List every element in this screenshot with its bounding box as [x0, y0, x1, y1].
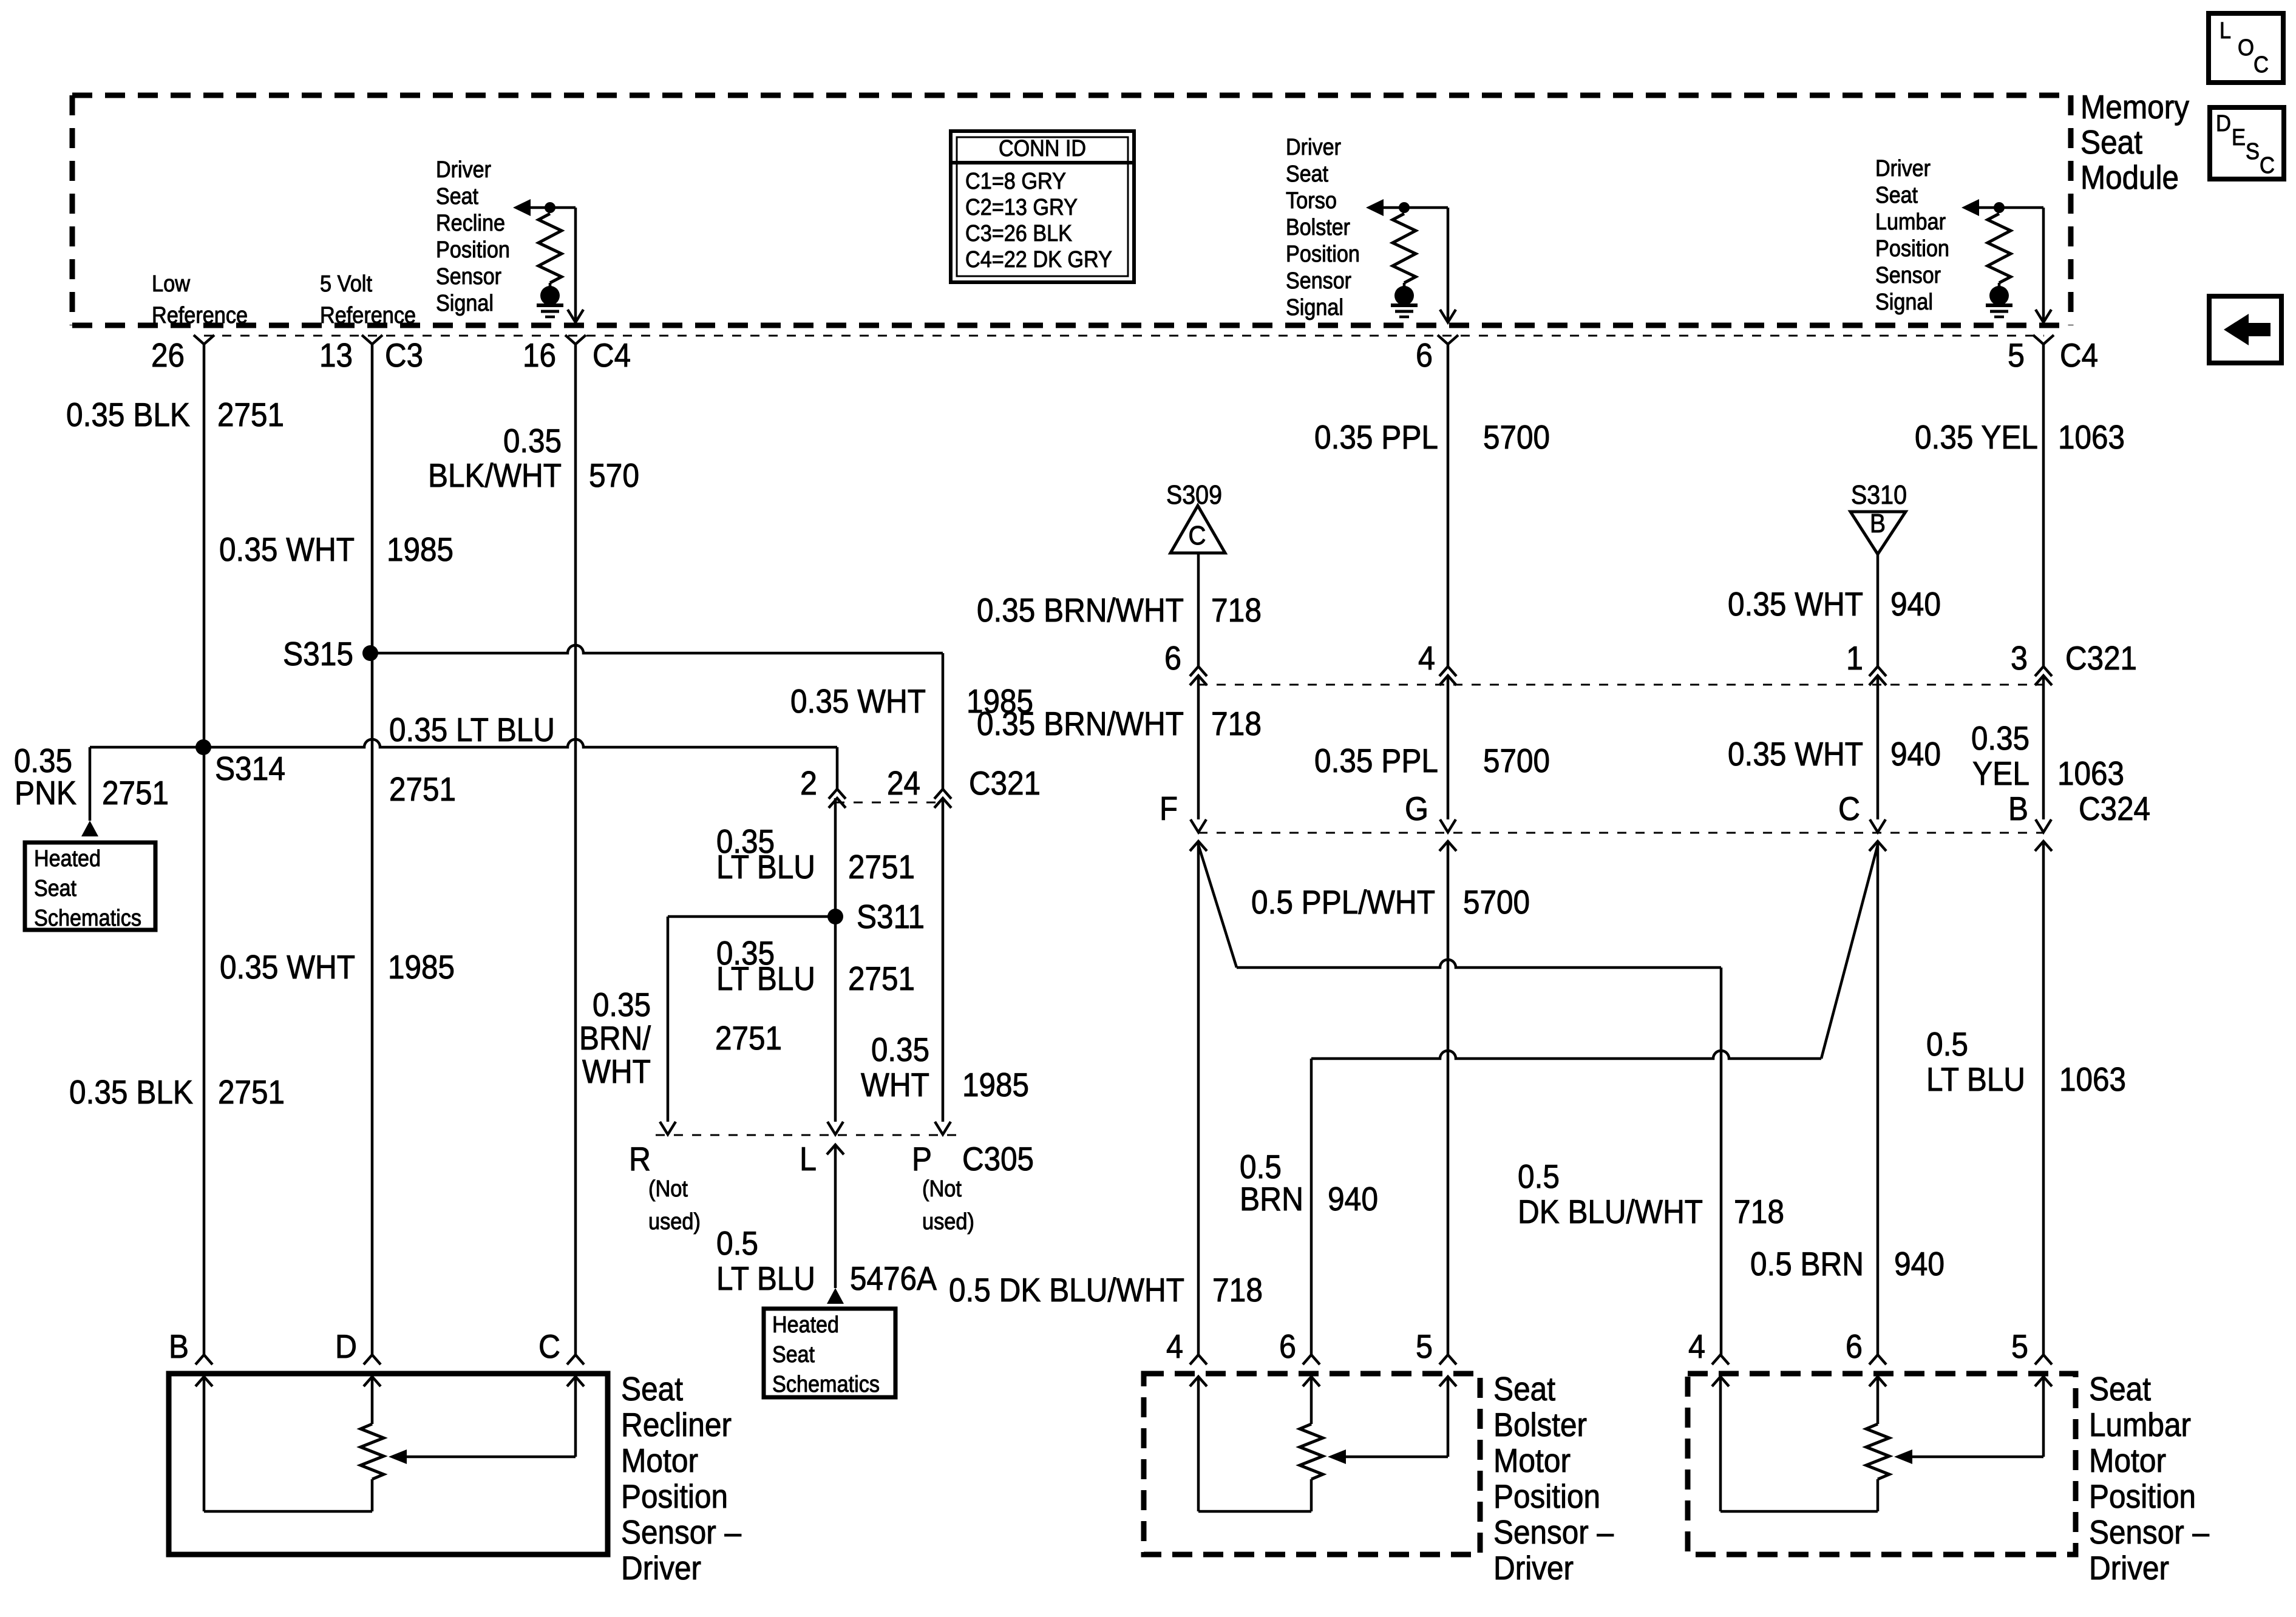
- svg-text:Sensor: Sensor: [436, 264, 501, 290]
- svg-text:4: 4: [1418, 639, 1435, 677]
- svg-text:Memory: Memory: [2080, 88, 2189, 126]
- svg-text:Signal: Signal: [1286, 295, 1343, 320]
- wire: S311 -> C305 R (0.35 BRN/WHT 2751): [668, 915, 835, 918]
- svg-text:(Not: (Not: [648, 1176, 688, 1202]
- potentiometer resistor: [1877, 1377, 1880, 1424]
- svg-text:Sensor –: Sensor –: [2089, 1513, 2209, 1551]
- svg-text:0.35 PPL: 0.35 PPL: [1314, 742, 1438, 779]
- svg-text:C2=13 GRY: C2=13 GRY: [965, 195, 1078, 220]
- svg-text:C: C: [2254, 52, 2269, 78]
- svg-text:Bolster: Bolster: [1286, 215, 1350, 240]
- svg-text:0.35 YEL: 0.35 YEL: [1915, 418, 2038, 456]
- svg-text:Seat: Seat: [1875, 183, 1918, 208]
- ground: sensor: Driver Seat Torso Bolster Position Sensor Signal (resistor + ground): [1394, 286, 1414, 305]
- svg-text:C: C: [538, 1327, 560, 1365]
- svg-text:P: P: [912, 1140, 932, 1178]
- svg-text:G: G: [1405, 790, 1428, 827]
- svg-text:C: C: [1838, 790, 1860, 827]
- svg-text:0.35 WHT: 0.35 WHT: [219, 531, 355, 568]
- wire: S314 horizontal -> C321 pin 2 (0.35 LT BLU 2751): [90, 739, 837, 747]
- svg-text:Seat: Seat: [1286, 161, 1328, 187]
- svg-text:BLK/WHT: BLK/WHT: [428, 456, 562, 494]
- svg-text:Seat: Seat: [772, 1342, 815, 1368]
- wiper arrow: [1447, 1377, 1450, 1457]
- svg-text:D: D: [2216, 111, 2231, 137]
- svg-text:0.35 BRN/WHT: 0.35 BRN/WHT: [977, 591, 1184, 629]
- svg-text:D: D: [335, 1327, 357, 1365]
- wiper arrow: sensor: Driver Seat Lumbar Position Sensor Signal (resistor + ground): [1961, 199, 1979, 216]
- svg-text:Module: Module: [2080, 158, 2179, 196]
- svg-text:R: R: [629, 1140, 651, 1178]
- svg-text:Position: Position: [1493, 1477, 1600, 1515]
- svg-text:used): used): [922, 1209, 974, 1235]
- svg-text:LT BLU: LT BLU: [716, 848, 815, 886]
- svg-text:5 Volt: 5 Volt: [320, 271, 372, 297]
- splice S311: [827, 909, 843, 924]
- svg-text:Seat: Seat: [1493, 1370, 1555, 1408]
- svg-text:5: 5: [2008, 336, 2025, 374]
- svg-text:940: 940: [1890, 735, 1941, 773]
- internal wire: low side: [203, 1377, 206, 1511]
- module bottom edge: [72, 323, 2071, 328]
- svg-text:Seat: Seat: [621, 1370, 683, 1408]
- svg-text:0.5: 0.5: [1926, 1025, 1968, 1063]
- junction dot: sensor: Driver Seat Torso Bolster Position Sensor Signal (resistor + ground): [1399, 202, 1410, 213]
- svg-text:B: B: [1870, 509, 1886, 538]
- junction dot: sensor: Driver Seat Recline Position Sensor Signal (resistor + ground): [545, 202, 555, 213]
- svg-text:C321: C321: [969, 764, 1041, 802]
- svg-text:0.35 WHT: 0.35 WHT: [1728, 585, 1863, 623]
- svg-text:24: 24: [887, 764, 920, 802]
- wire: S315 -> C321 pin 24 (0.35 WHT 1985): [370, 645, 943, 653]
- svg-text:2751: 2751: [848, 848, 915, 886]
- svg-text:940: 940: [1894, 1245, 1944, 1283]
- svg-text:LT BLU: LT BLU: [1926, 1060, 2025, 1098]
- svg-text:Recline: Recline: [436, 211, 505, 236]
- svg-text:Low: Low: [152, 271, 190, 297]
- Memory Seat Module dashed box: [72, 93, 2071, 98]
- svg-text:570: 570: [589, 456, 639, 494]
- svg-text:1985: 1985: [388, 948, 455, 986]
- svg-text:Seat: Seat: [34, 876, 76, 901]
- svg-text:Lumbar: Lumbar: [1875, 209, 1946, 235]
- wire: module pin 6 -> C321 pin 4 (0.35 PPL 5700): [1447, 344, 1450, 666]
- svg-text:718: 718: [1212, 1271, 1263, 1309]
- svg-text:Driver: Driver: [436, 157, 491, 183]
- wire: 16 C4 -> recliner C (0.35 BLK/WHT 570): [574, 344, 577, 1355]
- svg-text:Reference: Reference: [152, 303, 248, 328]
- svg-text:13: 13: [319, 336, 353, 374]
- wire: module pin 5 -> C321 pin 3 (0.35 YEL 1063): [2042, 344, 2045, 666]
- DESC box: [2210, 107, 2284, 179]
- svg-text:0.5: 0.5: [1518, 1158, 1560, 1195]
- svg-text:Motor: Motor: [621, 1442, 698, 1479]
- svg-text:C3=26 BLK: C3=26 BLK: [965, 221, 1072, 246]
- svg-text:0.35 BLK: 0.35 BLK: [66, 396, 190, 433]
- connector C321 (pins 2, 24) dashed line: [835, 802, 945, 804]
- svg-text:2751: 2751: [217, 396, 284, 433]
- ground: sensor: Driver Seat Recline Position Sensor Signal (resistor + ground): [540, 286, 560, 305]
- svg-text:Driver: Driver: [621, 1549, 701, 1587]
- svg-text:Recliner: Recliner: [621, 1406, 732, 1443]
- svg-text:1063: 1063: [2058, 418, 2125, 456]
- resistor: sensor: Driver Seat Lumbar Position Sensor Signal (resistor + ground): [1988, 214, 2011, 283]
- svg-text:Driver: Driver: [2089, 1549, 2169, 1587]
- wiper arrow: [574, 1377, 577, 1457]
- wire: C321 pin 24 -> C305 P (0.35 WHT 1985): [942, 798, 945, 1122]
- svg-text:CONN ID: CONN ID: [999, 136, 1086, 161]
- connector C305 dashed line: [656, 1134, 956, 1136]
- Seat Lumbar Motor Position Sensor - Driver box: [1688, 1374, 2076, 1554]
- signal wire to pin: sensor: Driver Seat Torso Bolster Position Sensor Signal (resistor + ground): [1447, 208, 1450, 322]
- svg-text:Seat: Seat: [2080, 123, 2142, 161]
- svg-text:5700: 5700: [1483, 742, 1550, 779]
- svg-text:718: 718: [1211, 705, 1262, 742]
- svg-text:2751: 2751: [389, 770, 456, 808]
- resistor: sensor: Driver Seat Recline Position Sensor Signal (resistor + ground): [538, 214, 562, 283]
- wiper arrow: sensor: Driver Seat Recline Position Sensor Signal (resistor + ground): [513, 199, 531, 216]
- svg-text:0.35 LT BLU: 0.35 LT BLU: [389, 711, 555, 748]
- svg-text:0.35: 0.35: [1971, 719, 2029, 757]
- svg-text:C305: C305: [962, 1140, 1034, 1178]
- svg-text:Seat: Seat: [436, 184, 478, 209]
- CONN ID table: [951, 131, 1134, 282]
- svg-text:Driver: Driver: [1875, 156, 1931, 181]
- svg-text:Driver: Driver: [1493, 1549, 1574, 1587]
- wire: C321 pin4 -> C324 G (0.35 PPL 5700): [1447, 676, 1450, 819]
- svg-text:used): used): [648, 1209, 701, 1235]
- svg-text:Reference: Reference: [320, 303, 416, 328]
- wire: C324 G -> bolster pin 5 (0.5 PPL/WHT 5700): [1439, 841, 1456, 851]
- wire: C305 L -> Heated Seat Schematics (0.5 LT BLU 5476A): [827, 1145, 844, 1154]
- Seat Bolster Motor Position Sensor - Driver box: [1144, 1374, 1480, 1554]
- svg-text:3: 3: [2011, 639, 2028, 677]
- svg-text:0.35 PPL: 0.35 PPL: [1314, 418, 1438, 456]
- wire: C324 F diagonal branch -> lumbar pin 4 (0.5 DK BLU/WHT 718): [1198, 845, 1237, 968]
- svg-text:YEL: YEL: [1972, 754, 2029, 792]
- svg-text:B: B: [169, 1327, 189, 1365]
- svg-text:C: C: [1189, 521, 1206, 551]
- svg-text:2751: 2751: [715, 1019, 782, 1057]
- svg-text:0.35 WHT: 0.35 WHT: [220, 948, 355, 986]
- svg-text:C4: C4: [593, 336, 631, 374]
- module connector pin Y symbols: [194, 335, 214, 344]
- svg-text:0.35 BRN/WHT: 0.35 BRN/WHT: [977, 705, 1184, 742]
- svg-text:940: 940: [1328, 1180, 1378, 1218]
- Seat Recliner Motor Position Sensor - Driver box: [169, 1374, 608, 1554]
- wire: C321 pin3 -> C324 B (0.35 YEL 1063): [2042, 676, 2045, 819]
- svg-text:1: 1: [1846, 639, 1863, 677]
- svg-text:0.35: 0.35: [871, 1031, 929, 1068]
- svg-text:0.35: 0.35: [593, 986, 651, 1023]
- svg-text:0.5 BRN: 0.5 BRN: [1750, 1245, 1864, 1283]
- svg-text:C324: C324: [2079, 790, 2150, 827]
- svg-text:S315: S315: [283, 635, 353, 673]
- svg-text:0.35 WHT: 0.35 WHT: [1728, 735, 1863, 773]
- svg-text:Position: Position: [1286, 242, 1360, 267]
- svg-text:Position: Position: [436, 237, 510, 263]
- svg-text:1985: 1985: [387, 531, 453, 568]
- svg-text:0.35 BLK: 0.35 BLK: [69, 1073, 193, 1111]
- svg-text:Sensor: Sensor: [1286, 268, 1351, 294]
- svg-text:6: 6: [1416, 336, 1433, 374]
- wire: C324 C -> lumbar pin 6 (0.5 BRN 940): [1869, 841, 1886, 851]
- svg-text:S: S: [2246, 139, 2260, 164]
- wire: C324 C diagonal branch -> bolster pin 6 (0.5 BRN 940): [1821, 845, 1878, 1059]
- junction dot: sensor: Driver Seat Lumbar Position Sensor Signal (resistor + ground): [1994, 202, 2005, 213]
- internal wire: low side: [1719, 1377, 1722, 1511]
- svg-text:C4: C4: [2060, 336, 2098, 374]
- svg-text:C321: C321: [2065, 639, 2137, 677]
- potentiometer resistor: [371, 1377, 374, 1424]
- ground: sensor: Driver Seat Lumbar Position Sensor Signal (resistor + ground): [1989, 286, 2009, 305]
- svg-text:Schematics: Schematics: [34, 906, 141, 931]
- svg-text:Position: Position: [621, 1477, 728, 1515]
- svg-text:DK BLU/WHT: DK BLU/WHT: [1518, 1193, 1703, 1230]
- svg-text:Signal: Signal: [1875, 290, 1933, 315]
- svg-text:S310: S310: [1851, 480, 1907, 510]
- LOC box: [2209, 13, 2283, 83]
- svg-text:2751: 2751: [848, 960, 915, 997]
- svg-text:C: C: [2260, 153, 2275, 178]
- svg-text:Signal: Signal: [436, 291, 494, 316]
- wire: C321 pin1 -> C324 C (0.35 WHT 940): [1877, 676, 1880, 819]
- svg-text:Driver: Driver: [1286, 135, 1341, 160]
- wire: S310 -> C321 pin 1 (0.35 WHT 940): [1877, 554, 1880, 666]
- svg-text:718: 718: [1211, 591, 1262, 629]
- potentiometer resistor: [1310, 1377, 1313, 1424]
- svg-text:B: B: [2008, 790, 2028, 827]
- wire: C321 pin2 -> S311 -> C305 L (0.35 LT BLU 2751): [834, 798, 837, 1122]
- svg-text:WHT: WHT: [861, 1066, 929, 1103]
- back arrow box: [2209, 296, 2281, 363]
- svg-text:Heated: Heated: [34, 846, 101, 872]
- svg-text:Heated: Heated: [772, 1312, 839, 1338]
- wire: PNK branch down to Heated Seat Schematics (0.35 PNK 2751): [89, 747, 92, 821]
- svg-text:6: 6: [1846, 1327, 1863, 1365]
- svg-text:Seat: Seat: [2089, 1370, 2151, 1408]
- svg-text:PNK: PNK: [15, 774, 76, 812]
- svg-text:5: 5: [1416, 1327, 1433, 1365]
- connector C321 (pins 6,4,1,3) dashed line: [1198, 684, 2043, 686]
- svg-text:Sensor: Sensor: [1875, 263, 1941, 288]
- signal wire to pin: sensor: Driver Seat Lumbar Position Sensor Signal (resistor + ground): [2042, 208, 2045, 322]
- svg-text:2751: 2751: [102, 774, 169, 812]
- svg-text:Torso: Torso: [1286, 188, 1337, 214]
- resistor: sensor: Driver Seat Torso Bolster Position Sensor Signal (resistor + ground): [1393, 214, 1416, 283]
- svg-text:5: 5: [2011, 1327, 2028, 1365]
- wire: C324 F -> bolster pin 4 (0.5 DK BLU/WHT 718): [1190, 841, 1207, 851]
- wire: C321 pin6 -> C324 F (0.35 BRN/WHT 718): [1197, 676, 1200, 819]
- svg-text:BRN/: BRN/: [579, 1019, 651, 1057]
- svg-text:5476A: 5476A: [850, 1259, 937, 1297]
- svg-text:1985: 1985: [962, 1066, 1029, 1103]
- svg-text:L: L: [2220, 18, 2231, 44]
- svg-text:Bolster: Bolster: [1493, 1406, 1587, 1443]
- svg-text:BRN: BRN: [1240, 1180, 1303, 1218]
- svg-text:2: 2: [800, 764, 817, 802]
- svg-text:Sensor –: Sensor –: [1493, 1513, 1614, 1551]
- svg-text:Motor: Motor: [2089, 1442, 2166, 1479]
- splice S315: [362, 645, 378, 661]
- svg-text:26: 26: [151, 336, 185, 374]
- svg-text:6: 6: [1279, 1327, 1296, 1365]
- svg-text:O: O: [2238, 35, 2254, 61]
- Heated Seat Schematics box (left): [25, 842, 155, 930]
- svg-text:LT BLU: LT BLU: [716, 960, 815, 997]
- svg-text:L: L: [800, 1140, 817, 1178]
- svg-text:5700: 5700: [1483, 418, 1550, 456]
- Heated Seat Schematics box (lower): [764, 1309, 895, 1397]
- svg-text:0.5 DK BLU/WHT: 0.5 DK BLU/WHT: [949, 1271, 1184, 1309]
- svg-text:C4=22 DK GRY: C4=22 DK GRY: [965, 247, 1112, 273]
- wire: 13 C3 -> recliner D (0.35 WHT 1985): [371, 344, 374, 1355]
- svg-text:1063: 1063: [2059, 1060, 2126, 1098]
- svg-text:Schematics: Schematics: [772, 1372, 880, 1397]
- svg-text:940: 940: [1890, 585, 1941, 623]
- svg-text:LT BLU: LT BLU: [716, 1259, 815, 1297]
- svg-text:Lumbar: Lumbar: [2089, 1406, 2191, 1443]
- svg-text:S314: S314: [215, 750, 285, 787]
- svg-text:6: 6: [1164, 639, 1181, 677]
- wire: 26 -> recliner B (0.35 BLK 2751): [203, 344, 206, 1355]
- svg-text:WHT: WHT: [582, 1053, 651, 1090]
- svg-text:0.5 PPL/WHT: 0.5 PPL/WHT: [1251, 883, 1435, 921]
- connector C324 dashed line: [1198, 832, 2043, 834]
- svg-text:2751: 2751: [218, 1073, 285, 1111]
- splice S314: [195, 739, 211, 755]
- svg-text:0.35 WHT: 0.35 WHT: [790, 682, 926, 720]
- svg-text:(Not: (Not: [922, 1176, 962, 1202]
- svg-text:1063: 1063: [2057, 754, 2124, 792]
- svg-text:S311: S311: [857, 898, 925, 935]
- svg-text:5700: 5700: [1463, 883, 1530, 921]
- svg-text:0.5: 0.5: [716, 1224, 758, 1262]
- internal wire: low side: [1197, 1377, 1200, 1511]
- svg-text:C1=8 GRY: C1=8 GRY: [965, 169, 1066, 194]
- wiper arrow: [2042, 1377, 2045, 1457]
- signal wire to pin: sensor: Driver Seat Recline Position Sensor Signal (resistor + ground): [574, 208, 577, 322]
- svg-text:S309: S309: [1166, 480, 1222, 510]
- svg-text:4: 4: [1166, 1327, 1183, 1365]
- svg-text:E: E: [2232, 125, 2246, 151]
- svg-text:Sensor –: Sensor –: [621, 1513, 741, 1551]
- svg-text:F: F: [1160, 790, 1178, 827]
- svg-text:Position: Position: [2089, 1477, 2196, 1515]
- wire: C324 B -> lumbar pin 5 (0.5 LT BLU 1063): [2035, 841, 2052, 851]
- svg-text:Motor: Motor: [1493, 1442, 1571, 1479]
- svg-text:0.35: 0.35: [503, 422, 562, 459]
- svg-text:Position: Position: [1875, 236, 1949, 262]
- wire: S309 -> C321 pin 6 (0.35 BRN/WHT 718): [1197, 553, 1200, 666]
- wiper arrow: sensor: Driver Seat Torso Bolster Position Sensor Signal (resistor + ground): [1366, 199, 1384, 216]
- svg-text:4: 4: [1688, 1327, 1705, 1365]
- svg-text:16: 16: [523, 336, 556, 374]
- svg-text:718: 718: [1734, 1193, 1784, 1230]
- svg-text:C3: C3: [385, 336, 423, 374]
- module connector dashed line (thin): [204, 335, 2044, 337]
